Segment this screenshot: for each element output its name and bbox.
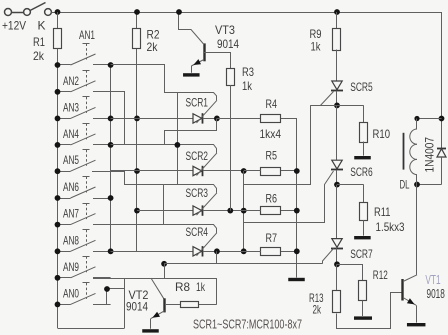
wire AN1 to SCR1 gate	[111, 65, 178, 93]
wire long SCR7 gate feeder	[164, 263, 322, 265]
resistor R7	[261, 248, 281, 256]
wire staircase SCR1-SCR2gate	[165, 118, 217, 144]
wire AN9 row	[93, 278, 217, 280]
transistor VT2 9014	[151, 278, 165, 300]
wire R3 down to SCR3 row	[230, 85, 232, 211]
diode 1N4007	[437, 148, 446, 150]
resistor R11	[363, 185, 365, 202]
wire SCR3 cathode	[203, 210, 261, 212]
ground VT3	[183, 73, 200, 76]
svg-text:AN8: AN8	[63, 233, 79, 247]
resistor R10	[363, 105, 365, 122]
resistor R2	[136, 12, 138, 28]
svg-text:2k: 2k	[33, 49, 45, 63]
svg-text:R4: R4	[266, 97, 278, 111]
svg-text:R1: R1	[33, 35, 45, 49]
svg-text:R3: R3	[242, 65, 254, 79]
wire AN2 jog	[93, 92, 125, 145]
switch K	[45, 9, 52, 16]
coil DL	[417, 118, 442, 120]
wire AN0 jog	[93, 289, 125, 305]
SCR7 gate diag	[323, 249, 334, 264]
svg-text:1N4007: 1N4007	[423, 137, 437, 173]
svg-text:R11: R11	[374, 205, 391, 219]
resistor R1	[57, 12, 59, 28]
wire SCR1 anode row (AN3)	[111, 118, 193, 120]
wire SCR1 cathode	[203, 118, 217, 120]
svg-text:R6: R6	[266, 191, 278, 205]
svg-text:SCR6: SCR6	[350, 165, 373, 179]
wire to R8 loop	[164, 264, 166, 278]
wire R13 to VT1 base	[337, 293, 403, 329]
wire SCR4 cathode	[203, 251, 261, 253]
svg-text:VT3: VT3	[215, 23, 235, 37]
svg-text:AN2: AN2	[63, 74, 79, 88]
node SCR7 cathode	[334, 261, 340, 267]
bus cathodes	[243, 171, 245, 251]
svg-text:R8: R8	[175, 280, 190, 294]
svg-text:9014: 9014	[126, 300, 148, 314]
svg-text:SCR7: SCR7	[350, 247, 373, 261]
svg-text:SCR5: SCR5	[350, 80, 373, 94]
svg-text:1kx4: 1kx4	[260, 127, 282, 141]
wire SCR4 anode row (AN8)	[111, 251, 193, 253]
svg-text:K: K	[38, 19, 46, 33]
ground R11	[354, 236, 371, 239]
ground VT1	[407, 323, 426, 326]
svg-text:AN4: AN4	[63, 127, 79, 141]
svg-text:SCR1~SCR7:MCR100-8x7: SCR1~SCR7:MCR100-8x7	[193, 317, 302, 332]
svg-text:SCR4: SCR4	[186, 225, 209, 239]
ground bus R4-7	[288, 278, 305, 281]
svg-text:R5: R5	[266, 149, 278, 163]
wire AN4 row to gate2	[111, 144, 165, 146]
svg-text:9014: 9014	[217, 37, 239, 51]
top rail	[58, 12, 442, 14]
transistor VT3 9014	[203, 43, 205, 61]
svg-text:DL: DL	[400, 178, 410, 192]
gate bus B	[163, 185, 165, 225]
svg-text:SCR2: SCR2	[186, 149, 209, 163]
wire R5 row	[244, 170, 261, 172]
transistor VT1 9018	[416, 185, 418, 275]
svg-text:VT1: VT1	[425, 272, 440, 287]
thyristor SCR6	[332, 160, 342, 169]
resistor R12	[362, 264, 364, 280]
svg-text:1k: 1k	[242, 79, 253, 93]
svg-text:R10: R10	[373, 127, 391, 141]
terminal +12V	[5, 9, 12, 16]
svg-text:R12: R12	[373, 268, 388, 282]
right rail	[441, 12, 443, 148]
svg-text:AN3: AN3	[63, 100, 79, 114]
thyristor SCR5	[332, 81, 342, 90]
wire R7 row	[244, 251, 261, 253]
node SCR6 cathode	[334, 182, 340, 188]
wire R4 row to bus	[281, 119, 297, 278]
ground R10	[354, 156, 371, 159]
wire R6 row	[244, 210, 261, 212]
svg-text:SCR1: SCR1	[186, 95, 209, 109]
resistor R13	[336, 264, 338, 291]
svg-text:1.5kx3: 1.5kx3	[376, 220, 405, 234]
svg-text:2k: 2k	[313, 303, 322, 317]
gate bus A	[177, 92, 179, 185]
resistor R6	[261, 207, 281, 215]
svg-text:R7: R7	[266, 231, 278, 245]
wire AN7 row to gate4	[93, 224, 164, 226]
wire SCR2cath to SCR5 gate	[244, 105, 311, 184]
wire VT3 base	[204, 53, 231, 69]
SCR6 gate path	[244, 171, 334, 223]
wire SCR3 anode row	[137, 210, 193, 212]
svg-text:AN6: AN6	[63, 180, 79, 194]
wire staircase SCR4 down	[164, 251, 216, 263]
SCR5 gate diag	[321, 92, 334, 106]
left rail	[57, 49, 59, 329]
wire SCR2 anode row (AN5)	[111, 170, 193, 172]
resistor R4	[261, 115, 281, 123]
ground R12	[354, 316, 372, 319]
wire VT2 collector loop	[124, 278, 126, 328]
svg-text:AN9: AN9	[63, 260, 79, 274]
ground VT2	[142, 329, 159, 332]
svg-text:AN0: AN0	[63, 286, 79, 300]
wire AN5 jog	[92, 172, 164, 185]
svg-text:+12V: +12V	[2, 19, 26, 33]
svg-text:1k: 1k	[311, 40, 322, 54]
svg-text:1k: 1k	[196, 280, 206, 294]
svg-text:AN7: AN7	[63, 207, 79, 221]
svg-text:AN5: AN5	[63, 153, 79, 167]
thyristor SCR7	[332, 239, 342, 248]
wire bottom link	[58, 328, 125, 330]
resistor R9	[334, 9, 340, 15]
resistor R5	[261, 168, 281, 176]
node SCR5 cathode	[334, 103, 340, 109]
resistor R3	[227, 69, 235, 86]
wire SCR2 cathode	[203, 170, 244, 172]
coil core	[403, 133, 405, 170]
svg-text:9018: 9018	[427, 286, 445, 301]
node bus1	[110, 65, 112, 251]
bus R2 feed	[136, 49, 138, 252]
svg-text:2k: 2k	[147, 40, 159, 54]
svg-text:SCR3: SCR3	[186, 186, 209, 200]
resistor R8	[166, 304, 181, 306]
svg-text:AN1: AN1	[79, 28, 95, 42]
